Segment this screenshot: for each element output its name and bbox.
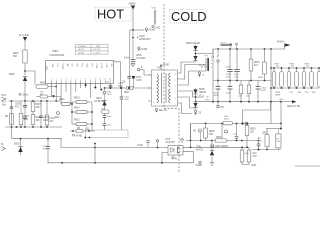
resistor bank top bus (271, 67, 319, 69)
IC right pin stub (114, 62, 121, 88)
resistor R822 (280, 72, 284, 88)
wire opto lower (94, 147, 96, 149)
arrow VB800 (131, 6, 135, 10)
resistor R807 (32, 100, 34, 103)
svg-text:3V3: 3V3 (252, 153, 257, 155)
svg-text:4.7U: 4.7U (258, 140, 263, 142)
svg-text:D803 20A/DC: D803 20A/DC (186, 42, 201, 45)
svg-text:20K: 20K (36, 107, 41, 109)
capacitor C820 (236, 124, 238, 137)
svg-text:C8: C8 (106, 82, 108, 84)
ground AGND mid symbol (138, 47, 140, 49)
svg-text:C804: C804 (139, 36, 145, 38)
circled pin numbers (147, 140, 149, 142)
wire jog to R830 (243, 102, 271, 124)
svg-text:C823: C823 (262, 133, 268, 135)
resistor bank bottom bus (271, 87, 319, 89)
bus cx bottom (252, 149, 281, 151)
dotted box around COLD (170, 10, 207, 24)
capacitor C804 label (137, 37, 138, 38)
svg-text:VCTR: VCTR (61, 64, 63, 70)
svg-text:10: 10 (94, 79, 96, 81)
capacitor C819 electrolytic (236, 49, 238, 70)
zener D801 (23, 77, 27, 82)
capacitor C806 (24, 101, 26, 106)
svg-text:C812: C812 (54, 117, 60, 119)
opto PC800 box (168, 146, 183, 156)
pin circle BD801 (137, 68, 140, 71)
resistor R810 vertical (31, 115, 35, 125)
capacitor C822 (258, 141, 260, 145)
svg-text:10: 10 (175, 74, 177, 76)
IC pin name labels rotated inside (51, 64, 112, 70)
capacitor C818 electrolytic (229, 49, 231, 70)
diode D806 (193, 103, 197, 108)
svg-text:GR08: GR08 (275, 95, 281, 97)
wire pin1 down (50, 83, 52, 96)
test point circle TP803 (57, 112, 60, 115)
svg-text:u0x: u0x (246, 96, 249, 98)
svg-text:R829: R829 (209, 131, 215, 133)
svg-text:D801: D801 (9, 74, 15, 76)
ground AGND transformer shield (160, 68, 162, 71)
IC pin ticks inside (51, 80, 110, 83)
bus feedback top (191, 123, 282, 125)
wires IC pins descending (55, 83, 57, 101)
svg-text:44CE: 44CE (224, 119, 229, 121)
resistor R808 vertical (10, 114, 14, 125)
svg-text:13: 13 (109, 79, 111, 81)
wire verticals resistor ladder (71, 102, 73, 124)
svg-text:R815: R815 (74, 120, 80, 122)
svg-text:C8xxx: C8xxx (22, 95, 29, 97)
op-amp U801 box (46, 61, 114, 84)
svg-text:100N: 100N (226, 93, 231, 95)
opto phototransistor (178, 147, 181, 153)
net arrow 14.0_500 (23, 37, 27, 41)
svg-text:R830: R830 (250, 129, 256, 131)
svg-text:SQP78H: SQP78H (166, 142, 176, 144)
resistor R819 (250, 49, 252, 59)
bus feedback mid (186, 140, 259, 142)
svg-text:TK3: TK3 (252, 156, 257, 158)
wire (130, 29, 145, 31)
svg-text:1mA: 1mA (238, 95, 243, 98)
opto LED (171, 148, 175, 153)
svg-text:8: 8 (175, 86, 176, 88)
svg-text:VOLTAGE: VOLTAGE (78, 45, 87, 48)
svg-text:25: 25 (202, 75, 204, 77)
svg-text:2: 2 (56, 79, 57, 81)
svg-text:7: 7 (80, 79, 81, 81)
svg-text:14.0_500: 14.0_500 (19, 34, 30, 37)
svg-text:COLD: COLD (171, 9, 207, 24)
loop rectangle (85, 130, 128, 138)
wire left rail of right block (212, 49, 214, 102)
svg-text:R806: R806 (40, 83, 46, 85)
svg-text:GND: GND (155, 28, 160, 30)
ground AGND tri above opto (180, 140, 184, 143)
net arrow SELECT-45L (280, 101, 282, 103)
svg-text:K2Op: K2Op (137, 145, 144, 147)
bus mid right y80.5 (213, 80, 271, 82)
capacitor C832 (86, 127, 88, 130)
svg-text:100N: 100N (214, 95, 219, 97)
resistor R818 zigzag (199, 64, 206, 67)
svg-text:R831: R831 (216, 137, 222, 139)
svg-text:U801: U801 (52, 49, 59, 53)
svg-text:VCC: VCC (85, 64, 87, 69)
svg-text:PG: PG (81, 64, 83, 67)
ground AGND top (145, 28, 147, 32)
svg-text:+C818: +C818 (225, 67, 232, 69)
wire x281 down (280, 102, 282, 129)
svg-text:C813: C813 (96, 98, 102, 100)
step wire (61, 139, 168, 148)
isolation dashed jog (164, 108, 179, 110)
capacitor C814 (104, 113, 106, 115)
resistor R833 (248, 147, 250, 150)
table AC voltage (76, 45, 109, 55)
transformer T800 box (152, 70, 178, 106)
svg-text:10N: 10N (24, 119, 29, 121)
connector pin left CN801-1 (2, 97, 7, 101)
svg-text:6: 6 (175, 98, 176, 100)
ground AGND under snubber (199, 71, 201, 72)
svg-text:C84x: C84x (196, 147, 202, 149)
secondary staircase wires (181, 62, 196, 73)
resistor R809 vertical (19, 114, 23, 125)
svg-text:1: 1 (153, 74, 154, 76)
svg-text:AGND: AGND (163, 64, 170, 67)
jumper pins on bus (230, 43, 232, 45)
bus cx top (266, 128, 281, 130)
svg-text:1: 1 (51, 79, 52, 81)
resistor R832 (241, 147, 243, 150)
resistor R821 (272, 72, 276, 88)
svg-text:4A7: 4A7 (50, 120, 55, 123)
svg-text:5: 5 (175, 104, 176, 106)
bus 24V top (213, 48, 281, 50)
resistor R829 (205, 124, 207, 129)
svg-text:R817: R817 (124, 92, 130, 94)
resistor R826 (310, 72, 314, 88)
wire bottom drive (111, 87, 127, 89)
svg-text:39K: 39K (209, 134, 214, 136)
svg-text:100P: 100P (43, 120, 49, 122)
capacitor C815 (103, 124, 107, 126)
transformer secondary winding lower (169, 89, 171, 103)
svg-text:C805: C805 (136, 55, 142, 57)
ground GND under transformer (155, 108, 157, 110)
capacitor C816 (127, 77, 130, 79)
notch on IC left edge (46, 66, 48, 70)
svg-text:C8xx: C8xx (107, 124, 111, 126)
wire tap 28V (196, 96, 205, 98)
svg-text:AGND: AGND (76, 135, 83, 138)
svg-text:R814: R814 (74, 108, 80, 110)
svg-text:EEL-35: EEL-35 (159, 110, 167, 112)
test point circle C8xx 12.3v (103, 91, 106, 94)
svg-text:CSS: CSS (105, 64, 107, 69)
diode D803 (193, 46, 197, 51)
bus secondary bottom y101.7 (196, 101, 282, 103)
svg-text:9: 9 (90, 79, 91, 81)
svg-text:10K: 10K (36, 120, 41, 122)
wire (132, 9, 134, 30)
wire vertical VB to cap (132, 30, 134, 59)
wire diode tap to bus (196, 49, 214, 54)
wire AGND row (70, 130, 95, 132)
opto pin wire left bottom (162, 153, 168, 163)
svg-text:8: 8 (85, 79, 86, 81)
svg-text:4: 4 (66, 79, 67, 81)
diode D804 (193, 56, 197, 61)
transformer left pin stubs (148, 75, 152, 101)
svg-text:7: 7 (175, 92, 176, 94)
transformer core lines (161, 73, 163, 103)
svg-text:100N: 100N (136, 80, 142, 82)
svg-text:SELECT-45L: SELECT-45L (287, 106, 301, 108)
svg-text:T800: T800 (157, 68, 163, 70)
svg-text:20L: 20L (206, 97, 209, 99)
resistor R827 (317, 72, 320, 88)
svg-text:C817: C817 (136, 77, 142, 79)
svg-text:L: 0-0.5V: L: 0-0.5V (94, 52, 102, 54)
svg-text:D802: D802 (14, 144, 20, 146)
svg-text:FSFR2100S: FSFR2100S (50, 53, 65, 57)
svg-text:9: 9 (175, 80, 176, 82)
svg-text:0.1U/50V: 0.1U/50V (136, 58, 146, 60)
resistor R836 (240, 81, 242, 86)
resistor R823 (287, 72, 291, 88)
svg-text:24V(D4: 24V(D4 (277, 42, 286, 44)
svg-text:450V: 450V (43, 149, 48, 151)
svg-text:12: 12 (104, 79, 106, 81)
ground GND2 (199, 161, 201, 163)
capacitor C811 400V (47, 139, 49, 147)
svg-text:C810: C810 (43, 117, 49, 119)
svg-text:11: 11 (99, 79, 101, 81)
connector circle right (245, 122, 248, 125)
diode D808 circle (225, 130, 228, 133)
bank stubs (274, 68, 319, 72)
ground triangle under C805 (131, 64, 135, 67)
svg-text:HOT: HOT (97, 7, 124, 22)
ground AGND lower (194, 110, 196, 112)
capacitor C831 (46, 101, 48, 115)
ground GND circle under L801 (152, 25, 154, 27)
svg-text:8.4xU: 8.4xU (124, 58, 130, 60)
svg-text:2: 2 (153, 89, 154, 91)
wire rail x271 (270, 49, 272, 124)
svg-text:PC8: PC8 (166, 139, 171, 141)
svg-text:20V-DC: 20V-DC (220, 42, 228, 44)
wire vertical left rail (11, 101, 13, 127)
opto pin wires right (190, 124, 192, 148)
svg-text:GN2: GN2 (279, 99, 283, 101)
svg-text:C806: C806 (15, 104, 21, 106)
capacitor C808 (24, 114, 26, 118)
svg-text:COK: COK (276, 141, 281, 143)
wire (24, 40, 26, 50)
zener D810 (104, 94, 106, 101)
svg-text:VB800: VB800 (129, 4, 137, 6)
svg-text:AGND: AGND (141, 48, 148, 51)
capacitor C825 electrolytic (217, 81, 219, 87)
wire (48, 86, 56, 88)
connector left bottom (2, 147, 6, 151)
wire bottom right edge (295, 165, 320, 167)
transformer primary winding (157, 74, 158, 103)
svg-text:4.7U: 4.7U (233, 134, 238, 136)
ground AGND label mid (73, 134, 75, 136)
junction (11, 100, 13, 102)
capacitor C826 electrolytic (229, 81, 231, 87)
svg-text:D805: D805 (199, 89, 205, 91)
svg-text:TP5: TP5 (205, 56, 208, 58)
diode D807 circle (199, 129, 202, 132)
capacitor C809 (40, 101, 42, 116)
isolation dashed line HOT/COLD (163, 4, 165, 109)
wire (24, 63, 26, 75)
wire vertical x95 (94, 144, 96, 163)
IC pin numbers inside (51, 79, 111, 81)
capacitor C827 electrolytic (257, 81, 259, 87)
isolation dashed line lower (178, 109, 180, 174)
wire (24, 81, 26, 101)
svg-text:R819: R819 (254, 62, 260, 64)
wire bus y88 left extension (105, 87, 111, 89)
svg-text:R812: R812 (59, 99, 65, 101)
capacitor C829 (109, 85, 113, 87)
svg-text:47U: 47U (15, 107, 20, 109)
svg-text:3: 3 (61, 79, 62, 81)
svg-text:12.3v: 12.3v (107, 94, 112, 96)
svg-text:20K: 20K (250, 132, 255, 134)
svg-text:AR: AR (66, 64, 69, 67)
svg-text:LVCC: LVCC (100, 64, 102, 70)
resistor R816 (76, 129, 83, 132)
svg-text:VR_7: VR_7 (199, 95, 204, 97)
wire bottom corner (242, 162, 249, 165)
svg-text:AC-NG: AC-NG (79, 51, 85, 54)
wire top diode string (195, 45, 197, 47)
svg-text:6: 6 (75, 79, 76, 81)
svg-text:5: 5 (70, 79, 71, 81)
svg-text:3: 3 (153, 102, 154, 104)
resistor R837 (248, 81, 250, 86)
svg-text:CON: CON (95, 64, 97, 69)
svg-text:C8xx: C8xx (107, 116, 111, 118)
svg-text:R801: R801 (13, 53, 19, 55)
junctions on top bus (217, 48, 219, 50)
svg-text:GND2: GND2 (196, 165, 203, 167)
wire lower fb (183, 146, 249, 148)
svg-text:2200P/2KV: 2200P/2KV (139, 39, 151, 41)
svg-text:H: 2-5.3V: H: 2-5.3V (93, 49, 101, 51)
wire vertical x35 (25, 71, 35, 85)
resistor R830 (245, 126, 249, 136)
svg-text:56K: 56K (13, 56, 18, 58)
junction VB rail (132, 29, 134, 31)
svg-text:AC-OK: AC-OK (79, 48, 85, 51)
svg-text:R813: R813 (74, 98, 80, 100)
wire x121.5 down with cap (121, 87, 123, 89)
bus wire left mid (9, 100, 62, 102)
junction (24, 70, 26, 72)
IC pin wires to caps (129, 30, 131, 88)
svg-text:PG: PG (56, 64, 58, 67)
svg-text:SG: SG (76, 64, 78, 67)
transformer right pin stubs (178, 73, 182, 103)
dotted box around HOT (95, 7, 131, 21)
wire (190, 124, 192, 141)
capacitor C828 (211, 145, 213, 149)
resistor R820 (264, 49, 266, 62)
test point circle 257 (217, 105, 220, 108)
wire from BD801 to transformer (140, 70, 152, 76)
resistor R801 (23, 50, 27, 63)
transformer secondary winding upper (169, 73, 171, 87)
capacitor C824 CX08 (276, 134, 281, 148)
svg-text:KA431: KA431 (196, 149, 204, 152)
svg-text:SB540: SB540 (199, 92, 207, 94)
svg-text:4K7: 4K7 (254, 65, 259, 67)
transformer pin numbers (153, 74, 177, 106)
resistor R817 (127, 86, 134, 89)
wire to lower-left net (11, 127, 13, 139)
junction blob (132, 76, 134, 78)
resistor R825 (302, 72, 306, 88)
svg-text:6.3V: 6.3V (235, 76, 240, 78)
diode D805 (193, 90, 197, 95)
svg-text:T8.D: T8.D (1, 95, 6, 97)
test point 4s (172, 157, 174, 159)
resistor R824 (295, 72, 299, 88)
bus bottom left (5, 126, 62, 128)
wire lower diode string (195, 88, 197, 90)
capacitor C817 (132, 77, 135, 79)
svg-text:VOLT: VOLT (205, 100, 211, 102)
circle test point TP802 (10, 106, 13, 109)
node label C8xxx (19, 93, 21, 95)
svg-text:GND: GND (251, 165, 256, 167)
bottom long bus (48, 162, 194, 164)
svg-text:100N: 100N (261, 90, 266, 92)
